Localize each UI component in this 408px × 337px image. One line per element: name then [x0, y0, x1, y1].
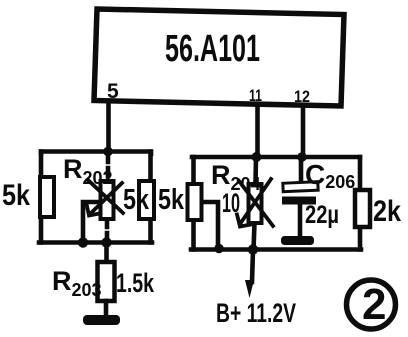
svg-text:12: 12	[294, 87, 310, 106]
wire right network left branch	[191, 157, 196, 250]
node F junction dot (R204 bottom / B+)	[248, 244, 258, 254]
svg-text:11: 11	[249, 86, 262, 105]
wire right network bottom rail	[191, 247, 361, 252]
wire pin 5 to node A	[106, 103, 111, 151]
op-amp U1 box 56.A101	[94, 9, 344, 106]
potentiometer R204 top lead	[253, 157, 258, 184]
svg-text:56.A101: 56.A101	[165, 28, 260, 70]
wire right network top rail	[192, 155, 360, 160]
node B junction dot (pot bottom on rail)	[101, 237, 111, 247]
resistor 5k body (left loop right)	[139, 181, 154, 219]
capacitor C206 top lead	[299, 157, 304, 182]
node A junction dot	[103, 147, 113, 157]
capacitor C206 lower lead	[298, 204, 303, 236]
node wiper-bottom junction dot	[78, 237, 88, 247]
ground	[83, 315, 120, 325]
B+ arrow head	[245, 280, 254, 298]
potentiometer R202 wiper arrow X	[87, 180, 124, 216]
potentiometer R202 dashed top lead	[106, 154, 111, 181]
svg-text:5k: 5k	[158, 184, 185, 216]
svg-text:2k: 2k	[373, 195, 401, 228]
svg-text:5k: 5k	[123, 184, 150, 216]
wire pin 12 to node D	[301, 107, 306, 157]
wire left loop top rail	[41, 152, 151, 155]
potentiometer R204 wiper arrow X	[237, 179, 273, 227]
svg-text:5: 5	[107, 80, 119, 103]
svg-text:5k: 5k	[2, 179, 30, 212]
wire R202 wiper to bottom rail	[83, 202, 100, 242]
wire node F to B+ arrow	[252, 250, 253, 282]
wire right network right branch	[358, 157, 363, 250]
wire pin 11 to node C	[255, 106, 260, 157]
resistor R203 body	[98, 262, 115, 301]
resistor 5k body (left)	[40, 177, 54, 217]
node D junction dot	[297, 152, 307, 162]
node C junction dot	[252, 152, 262, 162]
capacitor C206 positive plate	[283, 182, 318, 192]
capacitor C206 bottom bar	[281, 236, 314, 245]
potentiometer R202 body	[101, 181, 114, 219]
potentiometer R202 dashed bottom lead	[105, 219, 110, 241]
svg-text:10: 10	[222, 188, 240, 218]
svg-text:22µ: 22µ	[305, 201, 339, 229]
svg-text:1.5k: 1.5k	[116, 268, 155, 298]
capacitor C206 negative plate	[282, 197, 316, 205]
wire left loop right branch	[148, 152, 153, 243]
svg-text:B+ 11.2V: B+ 11.2V	[216, 298, 296, 328]
wire left loop bottom rail	[39, 240, 152, 245]
wire left loop left branch	[39, 152, 44, 243]
wire node B down to R203	[104, 243, 109, 263]
svg-text:2: 2	[362, 280, 386, 329]
node E junction dot	[214, 244, 224, 254]
wire 5k tap to bottom rail	[202, 202, 218, 248]
potentiometer R204 bottom lead	[254, 223, 255, 250]
figure number circle 2	[347, 280, 396, 329]
potentiometer R204 body	[249, 184, 262, 223]
resistor 2k body	[355, 190, 370, 227]
wire R203 to ground	[104, 301, 109, 316]
resistor 5k body (right network left)	[188, 184, 202, 220]
